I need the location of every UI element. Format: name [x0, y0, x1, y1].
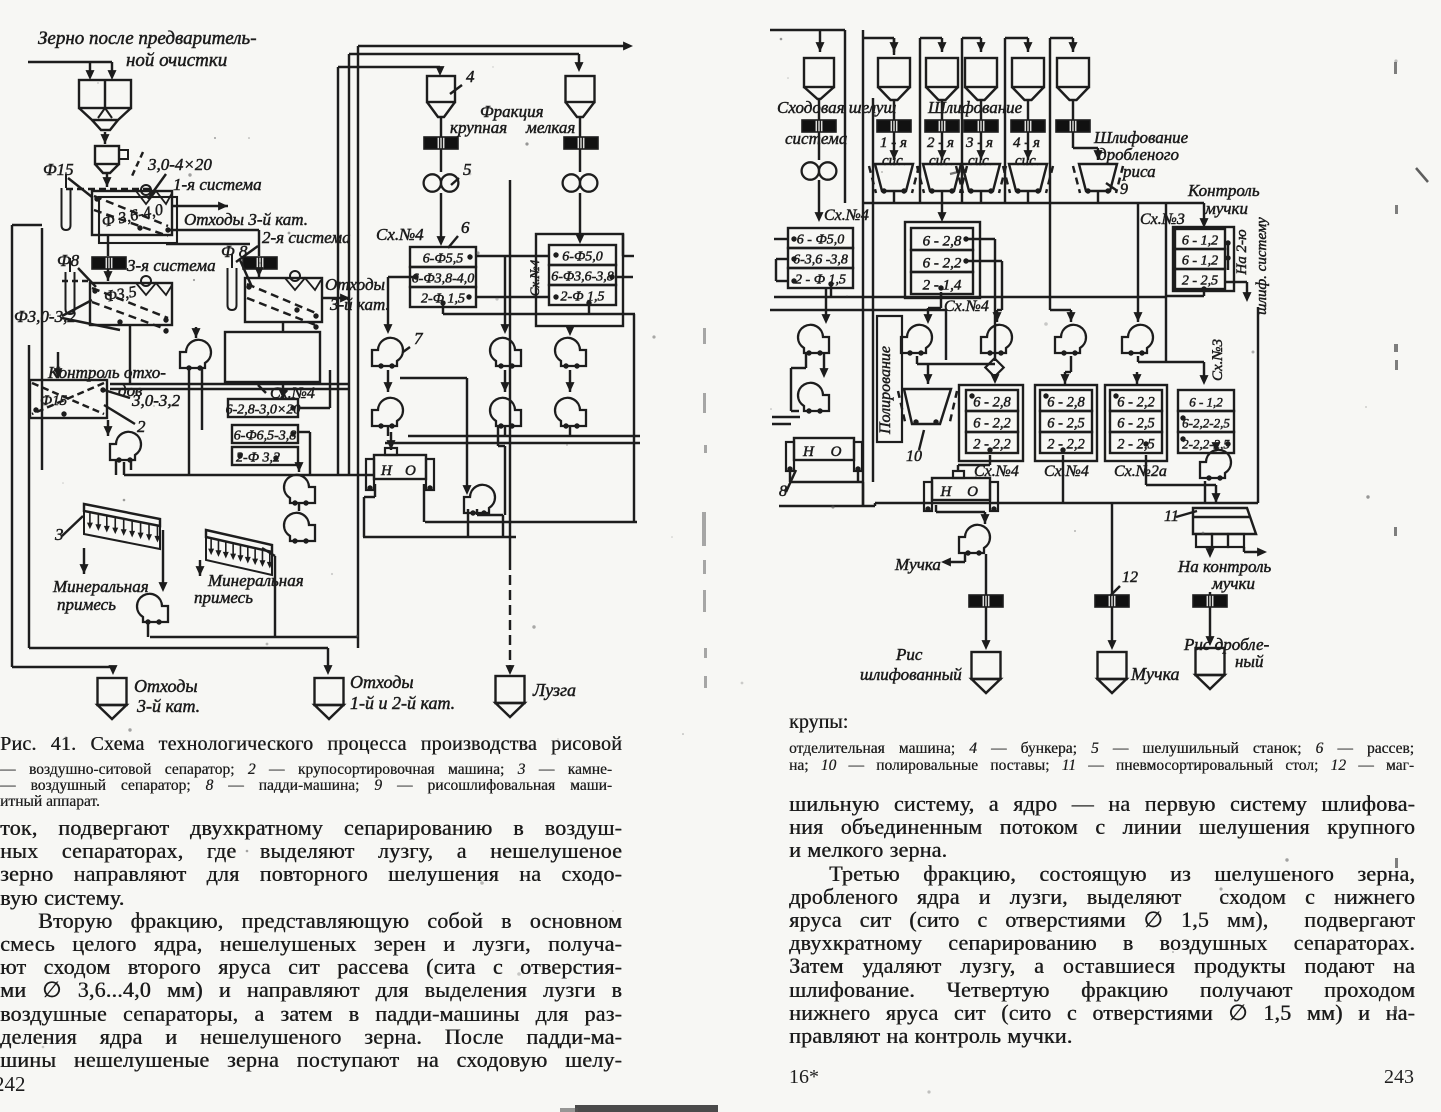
svg-text:6-2,2-2,5: 6-2,2-2,5: [1182, 416, 1230, 431]
svg-text:2 - 2,2: 2 - 2,2: [1047, 437, 1084, 453]
svg-text:6 - 2,8: 6 - 2,8: [973, 395, 1011, 411]
svg-text:Сх.№2а: Сх.№2а: [1114, 463, 1167, 480]
svg-text:1-я система: 1-я система: [173, 175, 262, 194]
svg-text:6 - 1,2: 6 - 1,2: [1189, 395, 1223, 410]
svg-text:Отходы: Отходы: [325, 275, 385, 294]
svg-text:12: 12: [1122, 569, 1138, 586]
svg-text:Мучка: Мучка: [1130, 664, 1180, 684]
svg-text:6-Ф5,5: 6-Ф5,5: [423, 252, 463, 267]
svg-text:6 - 2,8: 6 - 2,8: [923, 234, 962, 250]
svg-text:примесь: примесь: [57, 595, 116, 614]
svg-text:мучки: мучки: [1211, 574, 1255, 593]
svg-text:О: О: [831, 444, 842, 460]
svg-text:ный: ный: [1235, 652, 1264, 671]
svg-text:6 - 2,5: 6 - 2,5: [1117, 416, 1154, 432]
svg-text:3-й кат.: 3-й кат.: [136, 696, 200, 716]
svg-text:Ф15: Ф15: [43, 160, 74, 179]
svg-text:6-2,8-3,0×20: 6-2,8-3,0×20: [226, 403, 301, 418]
svg-text:примесь: примесь: [194, 588, 253, 607]
svg-text:мелкая: мелкая: [525, 118, 575, 137]
svg-text:6: 6: [461, 218, 470, 237]
svg-text:Отходы 3-й кат.: Отходы 3-й кат.: [184, 210, 308, 229]
svg-text:6-Ф3,8-4,0: 6-Ф3,8-4,0: [412, 272, 475, 287]
svg-text:Минеральная: Минеральная: [52, 577, 149, 596]
svg-text:Сх.№3: Сх.№3: [1210, 339, 1226, 381]
svg-text:ной очистки: ной очистки: [126, 50, 227, 71]
svg-text:Отходы: Отходы: [350, 672, 414, 692]
svg-text:система: система: [785, 129, 847, 148]
svg-text:Сх.№4: Сх.№4: [376, 225, 424, 244]
svg-text:крупная: крупная: [450, 118, 507, 137]
svg-text:2 - 1,4: 2 - 1,4: [923, 278, 962, 294]
svg-text:шлиф. систему: шлиф. систему: [1254, 217, 1270, 315]
svg-text:4 - я: 4 - я: [1013, 135, 1040, 151]
svg-text:3,0-4×20: 3,0-4×20: [147, 155, 212, 174]
svg-text:6-3,6 -3,8: 6-3,6 -3,8: [793, 253, 848, 268]
svg-text:4: 4: [466, 67, 475, 86]
svg-text:6-Ф6,5-3,8: 6-Ф6,5-3,8: [234, 429, 297, 444]
svg-text:9: 9: [1120, 181, 1128, 198]
svg-text:6-Ф5,0: 6-Ф5,0: [562, 250, 602, 265]
svg-text:1-й и 2-й кат.: 1-й и 2-й кат.: [350, 693, 455, 713]
svg-text:Ф8: Ф8: [57, 251, 80, 270]
svg-text:6 - 2,2: 6 - 2,2: [1117, 395, 1154, 411]
svg-text:мучки: мучки: [1204, 199, 1248, 218]
svg-text:Зерно после предваритель-: Зерно после предваритель-: [38, 28, 257, 49]
svg-text:3 - я: 3 - я: [965, 135, 993, 151]
svg-text:6 - 1,2: 6 - 1,2: [1182, 254, 1218, 269]
svg-text:О: О: [967, 484, 978, 500]
svg-text:На 2-ю: На 2-ю: [1234, 229, 1250, 276]
svg-text:Полирование: Полирование: [877, 346, 894, 435]
svg-text:Лузга: Лузга: [532, 680, 576, 700]
svg-text:Н: Н: [939, 484, 952, 500]
svg-text:Отходы: Отходы: [134, 676, 198, 696]
svg-text:Сх.№3: Сх.№3: [1140, 211, 1185, 228]
svg-text:2: 2: [137, 417, 146, 436]
svg-text:6 - 2,8: 6 - 2,8: [1047, 395, 1085, 411]
svg-text:6 - 2,2: 6 - 2,2: [973, 416, 1010, 432]
svg-text:2 - 2,5: 2 - 2,5: [1117, 437, 1154, 453]
svg-text:Сх.№4: Сх.№4: [1044, 463, 1089, 480]
svg-text:6 - Ф5,0: 6 - Ф5,0: [797, 233, 844, 248]
svg-text:6-Ф3,6-3,8: 6-Ф3,6-3,8: [551, 270, 614, 285]
svg-text:Сходовая шелуш: Сходовая шелуш: [777, 98, 896, 117]
svg-text:Ф15: Ф15: [40, 393, 68, 409]
svg-text:3-я система: 3-я система: [126, 256, 216, 275]
svg-text:Контроль: Контроль: [1187, 181, 1260, 200]
svg-text:6 - 2,5: 6 - 2,5: [1047, 416, 1084, 432]
svg-text:Сх.№4: Сх.№4: [527, 259, 542, 296]
svg-text:Ф3,0-3,2: Ф3,0-3,2: [14, 307, 76, 326]
svg-text:Рис: Рис: [895, 645, 923, 664]
svg-text:Сх.№4: Сх.№4: [944, 298, 989, 315]
svg-text:Н: Н: [802, 444, 815, 460]
svg-text:2-Ф 1,5: 2-Ф 1,5: [561, 290, 605, 305]
svg-text:2 - Ф 1,5: 2 - Ф 1,5: [795, 273, 846, 288]
svg-text:риса: риса: [1122, 162, 1156, 181]
svg-text:Ф 8: Ф 8: [221, 242, 248, 261]
svg-text:Мучка: Мучка: [894, 555, 941, 574]
svg-text:10: 10: [906, 448, 922, 465]
svg-text:2 - я: 2 - я: [927, 135, 954, 151]
svg-text:7: 7: [414, 329, 424, 348]
svg-text:3,0-3,2: 3,0-3,2: [131, 391, 181, 410]
svg-text:2 - 2,5: 2 - 2,5: [1182, 274, 1218, 289]
svg-text:Н: Н: [380, 463, 393, 479]
svg-text:6 - 2,2: 6 - 2,2: [923, 256, 962, 272]
svg-text:шлифованный: шлифованный: [860, 665, 962, 684]
svg-text:О: О: [405, 463, 416, 479]
svg-text:2-2,2-2,5: 2-2,2-2,5: [1182, 437, 1230, 452]
svg-text:6 - 1,2: 6 - 1,2: [1182, 234, 1218, 249]
svg-text:Ф 3,6-4,0: Ф 3,6-4,0: [100, 201, 164, 231]
svg-text:Ф3,5: Ф3,5: [103, 283, 138, 305]
svg-text:5: 5: [463, 160, 472, 179]
